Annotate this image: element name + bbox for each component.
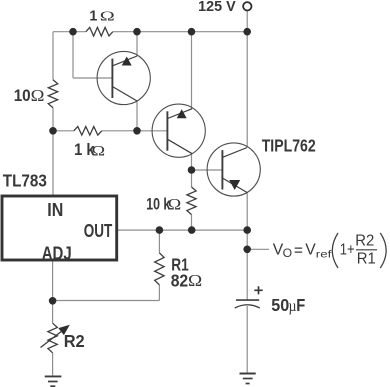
svg-text:1: 1 <box>89 9 97 25</box>
svg-text:µ: µ <box>289 298 297 315</box>
svg-text:Ω: Ω <box>168 197 182 214</box>
svg-text:IN: IN <box>47 200 63 220</box>
svg-text:O: O <box>283 247 293 260</box>
svg-text:10: 10 <box>14 87 31 105</box>
svg-text:125 V: 125 V <box>198 0 236 15</box>
svg-text:TIPL762: TIPL762 <box>262 135 316 155</box>
svg-text:F: F <box>296 295 305 315</box>
svg-text:ADJ: ADJ <box>42 244 72 264</box>
svg-text:R2: R2 <box>64 331 85 351</box>
svg-text:Ω: Ω <box>100 10 115 25</box>
svg-text:OUT: OUT <box>84 221 113 241</box>
svg-text:82: 82 <box>171 270 189 290</box>
svg-text:V: V <box>305 242 316 259</box>
svg-text:Ω: Ω <box>188 271 202 290</box>
svg-text:TL783: TL783 <box>3 171 47 191</box>
svg-text:Ω: Ω <box>31 86 45 105</box>
svg-text:R1: R1 <box>357 251 376 268</box>
svg-text:R2: R2 <box>355 232 374 249</box>
svg-text:1+: 1+ <box>340 242 355 259</box>
svg-text:50: 50 <box>271 295 289 315</box>
svg-text:Ω: Ω <box>92 143 106 159</box>
svg-text:ref: ref <box>316 248 332 260</box>
